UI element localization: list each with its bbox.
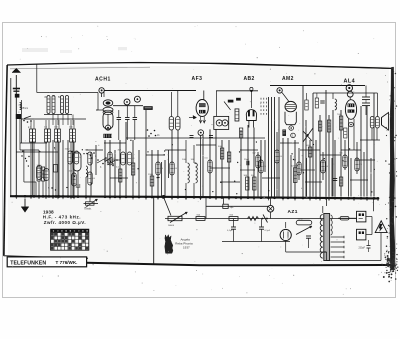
svg-text:T 776/WK.: T 776/WK. (56, 260, 78, 265)
svg-text:AL4: AL4 (344, 78, 356, 84)
svg-text:10000: 10000 (168, 225, 175, 227)
svg-text:AB2: AB2 (244, 76, 255, 82)
svg-text:ACH1: ACH1 (95, 76, 111, 82)
svg-text:1µF: 1µF (230, 206, 235, 209)
svg-text:AF3: AF3 (192, 76, 203, 82)
svg-text:0,1µF: 0,1µF (265, 230, 271, 232)
svg-text:25mm: 25mm (22, 107, 29, 110)
svg-text:TELEFUNKEN: TELEFUNKEN (10, 260, 46, 266)
svg-text:1937: 1937 (183, 246, 190, 250)
svg-text:0,1µF: 0,1µF (227, 230, 233, 232)
svg-text:AM2: AM2 (282, 76, 294, 82)
svg-text:230µF: 230µF (359, 248, 366, 250)
svg-text:1000: 1000 (65, 149, 71, 151)
svg-text:29µF: 29µF (244, 159, 250, 161)
svg-text:AZ1: AZ1 (288, 209, 298, 215)
svg-text:Zwfr. 4000 Ω.µV.: Zwfr. 4000 Ω.µV. (44, 220, 86, 225)
svg-text:1500: 1500 (148, 174, 154, 176)
svg-text:Tonab.: Tonab. (84, 207, 92, 211)
svg-text:H.F. - 473 kHz.: H.F. - 473 kHz. (43, 215, 81, 220)
